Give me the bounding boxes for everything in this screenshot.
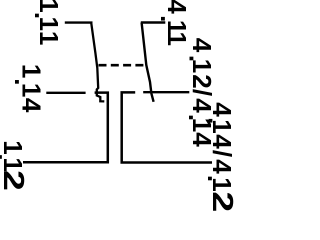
contact blade pole 1 [91, 23, 104, 102]
mechanical linkage (dashed) [99, 64, 144, 67]
wire 4.11 (common, pole 4) [141, 21, 166, 23]
svg-text:2: 2 [0, 170, 29, 191]
svg-text:4.14/4.1: 4.14/4.1 [202, 102, 237, 191]
svg-text:1.14: 1.14 [9, 64, 46, 113]
wire 1.14 (NO contact, pole 1) [46, 92, 85, 94]
svg-text:1.11: 1.11 [29, 0, 64, 45]
svg-text:2: 2 [206, 191, 237, 212]
svg-text:1.1: 1.1 [0, 140, 28, 172]
wire 4.12/4.14 (contact line, pole 4) [143, 91, 189, 93]
contact blade pole 4 [142, 23, 154, 102]
wire 1.11 (common, pole 1) [65, 21, 93, 23]
wire 4.14/4.12 (contact arm + vertical + bottom run, pole 4) [122, 92, 212, 162]
wire 1.12 (NC contact arm + vertical + bottom run, pole 1) [23, 93, 108, 163]
